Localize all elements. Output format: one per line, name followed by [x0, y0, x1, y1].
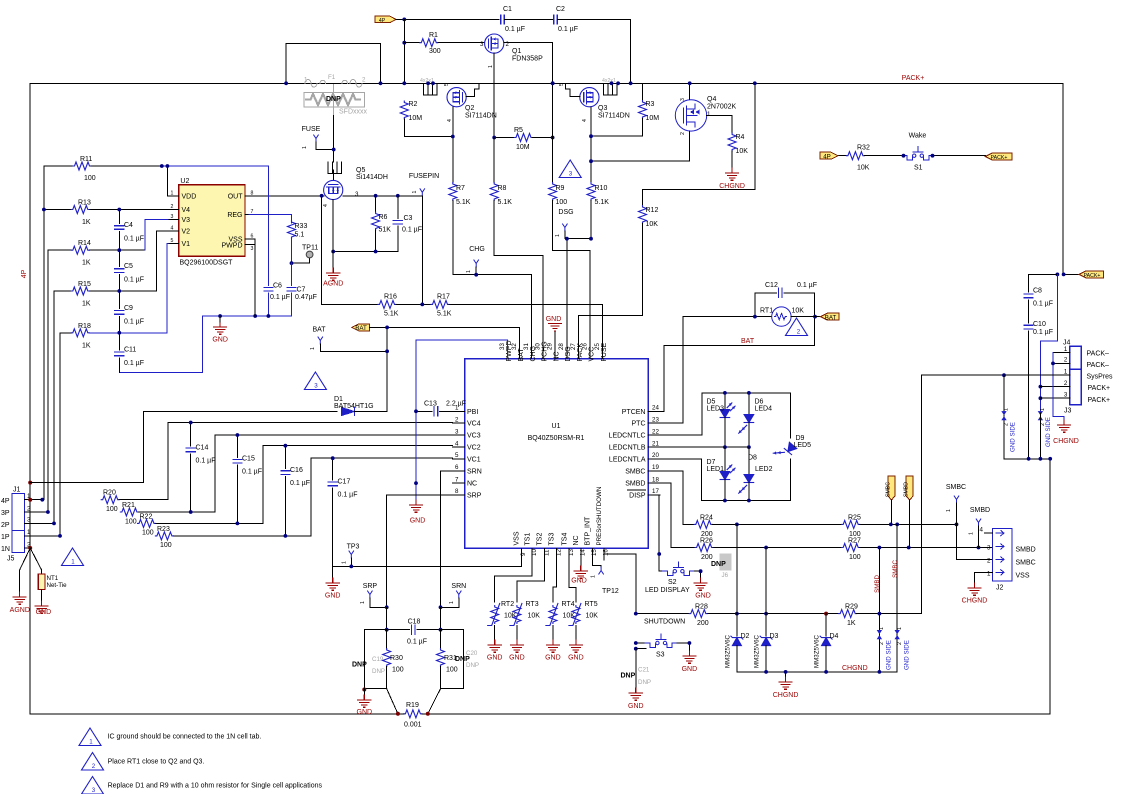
svg-text:1: 1: [707, 111, 711, 118]
note triangle 3 (R9 area): [559, 160, 581, 178]
svg-text:BAT: BAT: [741, 338, 755, 345]
svg-text:DISP: DISP: [629, 493, 646, 500]
resistor R26: [695, 538, 842, 562]
junction at 766.1,547.5: [764, 546, 768, 550]
resistor R4: [728, 133, 748, 168]
node BAT flag: [352, 324, 370, 332]
transistor Q3: [559, 78, 630, 122]
junction at 879.4,671.9: [878, 670, 882, 674]
svg-text:1: 1: [342, 561, 348, 564]
ground GND S3 bottom: [628, 649, 644, 710]
svg-text:DNP: DNP: [638, 679, 651, 686]
svg-text:U1: U1: [552, 423, 561, 430]
svg-text:SI7114DN: SI7114DN: [598, 113, 630, 120]
svg-text:BAT: BAT: [355, 325, 367, 332]
wire zener ground rail: [737, 671, 897, 673]
ground CHGND J2: [962, 572, 993, 604]
LED D7 (LED1): [707, 447, 736, 500]
svg-text:100: 100: [106, 506, 118, 513]
junction at 167.4,166: [166, 164, 170, 168]
svg-text:R18: R18: [78, 323, 91, 330]
ground GND NT1: [35, 601, 51, 616]
svg-text:0.1 µF: 0.1 µF: [1033, 301, 1053, 308]
net-tie NT1: [30, 548, 67, 601]
svg-text:SMBD: SMBD: [874, 574, 881, 592]
svg-text:2: 2: [897, 642, 903, 645]
node PACK+ flag S1: [985, 153, 1012, 161]
svg-text:MM3Z5V6C: MM3Z5V6C: [754, 634, 761, 668]
svg-text:100: 100: [142, 530, 154, 537]
junction at 785.6,671.9: [784, 670, 788, 674]
svg-text:TP11: TP11: [302, 245, 318, 252]
svg-text:LED3: LED3: [707, 406, 725, 413]
switch S1 Wake: [838, 133, 985, 172]
junction at 190.7,422.5: [189, 421, 193, 425]
svg-text:LED2: LED2: [755, 466, 773, 473]
ground GND RT2: [487, 640, 503, 662]
svg-text:R27: R27: [848, 538, 861, 545]
svg-text:1: 1: [1064, 346, 1068, 353]
junction at 190.7,512: [189, 510, 193, 514]
resistor R7: [449, 183, 471, 275]
junction at 591,136.2: [589, 134, 593, 138]
svg-text:DSG: DSG: [558, 209, 573, 216]
svg-text:PACK+: PACK+: [1084, 273, 1101, 279]
ground GND R30: [357, 688, 373, 717]
capacitor C16: [281, 446, 310, 536]
svg-text:NT1: NT1: [47, 575, 59, 582]
svg-text:13: 13: [568, 549, 575, 556]
svg-text:R2: R2: [409, 101, 418, 108]
junction at 416,411.3: [414, 409, 418, 413]
capacitor C11: [115, 347, 144, 373]
svg-text:C4: C4: [124, 222, 133, 229]
svg-text:SysPres: SysPres: [1087, 374, 1114, 381]
wire GND SIDE bottom rail: [1004, 458, 1050, 460]
svg-text:R26: R26: [700, 538, 713, 545]
svg-text:R11: R11: [80, 156, 92, 163]
testpoint TP12: [591, 560, 619, 595]
capacitor C2: [554, 6, 631, 83]
wire LEDCNTLB mid rail: [660, 446, 749, 448]
svg-text:R29: R29: [845, 604, 858, 611]
svg-text:10K: 10K: [646, 221, 659, 228]
wire LEDCNTLA to LED box bottom: [660, 459, 790, 501]
svg-text:FUSEPIN: FUSEPIN: [409, 173, 439, 180]
resistor R22: [138, 446, 263, 537]
svg-text:0.1 µF: 0.1 µF: [124, 236, 144, 243]
svg-text:C18: C18: [408, 619, 421, 626]
capacitor C9: [115, 305, 144, 350]
svg-text:PACK–: PACK–: [1087, 362, 1110, 369]
wire PACK+ to J3 pins: [1040, 274, 1057, 413]
resistor R13: [44, 200, 168, 227]
svg-text:1K: 1K: [82, 260, 91, 267]
svg-text:IC ground should be connected: IC ground should be connected to the 1N …: [108, 734, 262, 741]
resistor R14: [48, 240, 145, 267]
svg-text:2: 2: [27, 505, 31, 512]
junction at 380.5,83.3: [379, 81, 383, 85]
junction at 1040.4,458.8: [1039, 457, 1043, 461]
junction at 724.9,392.9: [723, 391, 727, 395]
svg-text:0.1 µF: 0.1 µF: [290, 480, 310, 487]
transistor Q5: [323, 162, 388, 207]
junction at 440.5,629.7: [439, 628, 443, 632]
wire SMBC(19) to R24: [660, 471, 694, 524]
resistor R24: [694, 514, 841, 538]
junction at 428.1,83.3: [426, 81, 430, 85]
svg-text:SMBD: SMBD: [970, 507, 990, 514]
svg-text:VCC: VCC: [589, 347, 596, 362]
junction at 220.1,316: [218, 314, 222, 318]
wire Q4 gate to R4: [707, 115, 732, 133]
pin FUSE: [302, 126, 334, 150]
capacitor C5: [115, 263, 144, 309]
junction at 386.7,607.3: [385, 605, 389, 609]
LED D6 (LED4): [739, 393, 772, 447]
svg-text:0.1 µF: 0.1 µF: [270, 294, 290, 301]
svg-text:10K: 10K: [736, 148, 749, 155]
svg-text:1: 1: [1064, 369, 1068, 376]
svg-text:7: 7: [455, 476, 459, 483]
svg-text:CHGND: CHGND: [962, 598, 988, 605]
svg-text:GND: GND: [571, 578, 587, 585]
junction at 1057.4,274.4: [1056, 273, 1060, 277]
svg-text:5.1K: 5.1K: [498, 199, 513, 206]
svg-text:S1: S1: [914, 165, 923, 172]
capacitor C3: [393, 196, 422, 252]
junction at 255.2,316: [253, 314, 257, 318]
junction at 1053,363.4: [1051, 362, 1055, 366]
ground GND RT5: [568, 640, 584, 662]
svg-text:R31: R31: [444, 655, 457, 662]
junction at 700.6,571.2: [699, 569, 703, 573]
svg-text:23: 23: [652, 416, 659, 423]
svg-text:SMBC: SMBC: [946, 484, 966, 491]
junction at 291.5,263.1: [290, 261, 294, 265]
svg-text:VC2: VC2: [467, 445, 481, 452]
svg-text:1: 1: [488, 65, 494, 68]
net-tie GND SIDE right: [1038, 408, 1052, 459]
net-tie GND SIDE right: [895, 627, 911, 672]
svg-text:R19: R19: [406, 702, 419, 709]
svg-text:BQ40Z50RSM-R1: BQ40Z50RSM-R1: [528, 435, 585, 442]
wire C8/C10 branch: [1029, 274, 1058, 292]
wire Q2 source column: [452, 107, 454, 183]
svg-text:VC1: VC1: [467, 456, 481, 463]
junction at 890.8,524.4: [889, 523, 893, 527]
junction at 978.5,547.5: [977, 546, 981, 550]
svg-text:J2: J2: [996, 585, 1004, 592]
junction at 1040.4,386.6: [1039, 385, 1043, 389]
junction at 630.6,83.3: [629, 81, 633, 85]
svg-text:10M: 10M: [516, 144, 530, 151]
wire BAT net: [369, 327, 519, 358]
svg-text:LEDCNTLC: LEDCNTLC: [609, 433, 646, 440]
svg-text:R28: R28: [695, 604, 708, 611]
junction at 416,483.1: [414, 481, 418, 485]
svg-text:TP12: TP12: [602, 588, 619, 595]
junction at 591,238.7: [589, 237, 593, 241]
junction at 1028.6,458.8: [1027, 457, 1031, 461]
junction at 591,161.2: [589, 159, 593, 163]
ground GND C13: [410, 500, 426, 525]
wire ladder left bus columns: [44, 166, 60, 536]
resistor R2: [400, 101, 453, 137]
wire Q1 drain to rail: [504, 43, 553, 84]
junction (red) at 30.2,482.6: [28, 481, 32, 485]
junction at 932.5,155.7: [931, 154, 935, 158]
svg-text:1K: 1K: [847, 620, 856, 627]
svg-text:3: 3: [171, 214, 174, 220]
svg-text:4: 4: [455, 440, 459, 447]
svg-text:1P: 1P: [1, 534, 10, 541]
svg-text:4: 4: [447, 119, 453, 122]
svg-text:R22: R22: [140, 513, 153, 520]
wire Q3 source column: [590, 107, 592, 183]
wire CHG row to U1 pin31: [453, 275, 532, 359]
junction at 42.3,499.7: [40, 498, 44, 502]
svg-text:SMBC: SMBC: [892, 559, 899, 577]
svg-text:BAT: BAT: [518, 348, 525, 362]
svg-text:0.1 µF: 0.1 µF: [124, 319, 144, 326]
svg-text:DSG: DSG: [565, 346, 572, 361]
svg-text:14: 14: [580, 549, 587, 556]
ground GND TP3: [325, 566, 341, 599]
svg-text:1: 1: [555, 234, 561, 237]
junction at 748.9,500.5: [747, 499, 751, 503]
svg-text:6: 6: [455, 464, 459, 471]
zener D3 MM3Z5V6C: [754, 614, 779, 672]
transistor Q2: [420, 78, 497, 122]
node PACK+ flag right: [1064, 271, 1104, 279]
junction at 566.9,238.7: [565, 237, 569, 241]
connector J5: [1, 529, 60, 562]
wire PTC net to RT1 left: [660, 317, 772, 424]
svg-text:Q2: Q2: [465, 105, 474, 112]
capacitor C1: [501, 6, 554, 33]
svg-text:BAT: BAT: [825, 314, 837, 321]
svg-text:V4: V4: [182, 207, 191, 214]
svg-text:V3: V3: [182, 217, 191, 224]
wire rowA to D2 column: [736, 524, 738, 613]
svg-text:C20: C20: [466, 650, 478, 657]
svg-text:J3: J3: [1064, 408, 1072, 415]
svg-text:4P: 4P: [21, 269, 28, 278]
svg-text:2: 2: [362, 77, 366, 84]
connector J3: [1040, 369, 1113, 415]
svg-text:J1: J1: [13, 487, 21, 494]
svg-text:PWPD: PWPD: [222, 242, 243, 249]
svg-text:R8: R8: [498, 185, 507, 192]
svg-text:C12: C12: [765, 282, 778, 289]
svg-text:3: 3: [92, 787, 96, 794]
svg-text:C11: C11: [124, 347, 136, 354]
svg-text:GND: GND: [36, 609, 52, 616]
svg-text:RT2: RT2: [501, 601, 514, 608]
svg-text:R13: R13: [78, 200, 91, 207]
junction at 397.8,195.8: [396, 194, 400, 198]
resistor R25: [842, 514, 957, 538]
junction at 903.5,155.7: [902, 154, 906, 158]
resistor R30: [383, 630, 404, 689]
svg-text:R24: R24: [700, 514, 713, 521]
junction (red) at 30.2,499.7: [28, 498, 32, 502]
junction at 332.7,458.2: [331, 456, 335, 460]
svg-text:100: 100: [84, 175, 96, 182]
wire rowB to D3 column: [765, 548, 767, 614]
svg-text:R12: R12: [646, 207, 659, 214]
DNP grey box J6: [711, 554, 731, 579]
net-tie GND SIDE left: [877, 614, 893, 672]
junction at 433,83.3: [431, 81, 435, 85]
resistor R12: [579, 83, 755, 358]
junction at 689.4,643: [688, 641, 692, 645]
junction at 386.7,629.7: [385, 628, 389, 632]
svg-text:PACK+: PACK+: [902, 75, 925, 82]
wire Q4 drain to rail: [689, 83, 691, 99]
svg-text:1K: 1K: [82, 301, 91, 308]
svg-text:4P: 4P: [823, 153, 831, 160]
svg-text:20: 20: [652, 452, 659, 459]
svg-text:GND SIDE: GND SIDE: [903, 640, 910, 670]
junction at 119.3,332.8: [117, 331, 121, 335]
svg-text:11: 11: [543, 549, 550, 556]
svg-text:GND: GND: [545, 655, 561, 662]
svg-text:10K: 10K: [528, 613, 541, 620]
junction at 748.9,447.1: [747, 445, 751, 449]
wire LED box right edge / D9 branch: [790, 393, 792, 501]
capacitor C10: [1024, 321, 1053, 459]
wire U2 ground rail: [119, 316, 291, 373]
wire SMBD red vertical: [878, 548, 880, 614]
resistor R27: [842, 538, 993, 562]
junction (red) at 397.9,713.8: [396, 712, 400, 716]
svg-text:2P: 2P: [1, 522, 10, 529]
svg-text:OUT: OUT: [228, 193, 244, 200]
junction at 689.7,83.3: [688, 81, 692, 85]
wire PTCEN net to RT1: [660, 317, 814, 412]
svg-text:SRP: SRP: [467, 493, 482, 500]
capacitor C14: [186, 423, 215, 513]
transistor Q4: [675, 96, 736, 135]
wire PACK+ top rail: [30, 83, 1063, 274]
svg-text:300: 300: [429, 48, 441, 55]
junction at 404.3,42.7: [402, 41, 406, 45]
capacitor C19 DNP loop: [352, 630, 387, 689]
resistor R29: [839, 604, 922, 627]
ground GND U2: [212, 316, 228, 344]
ground GND pin29: [546, 316, 562, 359]
junction at 736.9,524.4: [735, 523, 739, 527]
junction at 956.5,524.4: [955, 523, 959, 527]
svg-text:C6: C6: [273, 283, 282, 290]
svg-text:GND SIDE: GND SIDE: [1045, 417, 1052, 447]
svg-text:17: 17: [652, 488, 659, 495]
net-tie GND SIDE left: [1001, 375, 1016, 459]
junction at 748.9,392.9: [747, 391, 751, 395]
junction at 333.7,149.5: [332, 148, 336, 152]
svg-text:C14: C14: [196, 445, 209, 452]
capacitor C17: [328, 458, 357, 566]
svg-text:Net-Tie: Net-Tie: [47, 582, 68, 589]
IC U1 BQ40Z50RSM-R1: [453, 341, 661, 561]
svg-text:Place RT1 close to Q2 and Q3.: Place RT1 close to Q2 and Q3.: [108, 759, 205, 766]
junction (red) at 826.1,613.6: [824, 612, 828, 616]
svg-text:1: 1: [71, 559, 75, 566]
ground AGND: [323, 200, 343, 288]
wire V2 riser: [157, 231, 168, 291]
junction at 440.5,607.3: [439, 605, 443, 609]
resistor R31: [437, 630, 458, 689]
svg-text:PRESorSHUTDOWN: PRESorSHUTDOWN: [596, 487, 603, 546]
note triangle 3 (D1 area): [304, 372, 326, 390]
svg-text:D8: D8: [748, 455, 757, 462]
svg-text:DNP: DNP: [711, 561, 726, 568]
svg-text:CHG: CHG: [530, 346, 537, 362]
pin BAT: [310, 327, 387, 352]
junction at 879.4,613.6: [878, 612, 882, 616]
wire VC4 row: [168, 422, 453, 424]
junction at 552.6,137.5: [551, 136, 555, 140]
junction at 285.4,445.7: [284, 444, 288, 448]
svg-text:REG: REG: [227, 212, 242, 219]
svg-text:PTCEN: PTCEN: [622, 409, 646, 416]
wire R6/C3 bottom to AGND: [333, 251, 398, 253]
LED D5 (LED3): [707, 393, 736, 447]
note triangle 1 bottom: [79, 728, 101, 746]
svg-text:SMBC: SMBC: [1016, 560, 1036, 567]
junction at 826.1,671.9: [824, 670, 828, 674]
svg-text:GND SIDE: GND SIDE: [886, 640, 893, 670]
svg-text:C15: C15: [242, 456, 255, 463]
thermistor RT2: [488, 601, 517, 640]
svg-text:0.47µF: 0.47µF: [295, 294, 317, 301]
capacitor C18: [387, 607, 441, 645]
svg-text:NC: NC: [467, 481, 477, 488]
svg-text:LED DISPLAY: LED DISPLAY: [645, 587, 690, 594]
svg-text:10K: 10K: [792, 308, 805, 315]
svg-text:C17: C17: [338, 479, 351, 486]
note triangle 2 bottom: [82, 753, 104, 771]
svg-text:Q5: Q5: [356, 167, 365, 174]
svg-text:RT1: RT1: [760, 308, 773, 315]
svg-text:C16: C16: [290, 467, 303, 474]
svg-text:1K: 1K: [82, 342, 91, 349]
pin SMBD right: [969, 507, 991, 548]
junction at 268.4,316: [267, 314, 271, 318]
svg-text:4P: 4P: [1, 498, 10, 505]
svg-text:TS2: TS2: [537, 533, 544, 546]
svg-text:C2: C2: [556, 6, 565, 13]
junction at 766.1,671.9: [764, 670, 768, 674]
ground GND S3 right: [682, 651, 698, 673]
svg-text:9: 9: [520, 552, 527, 556]
svg-text:Q3: Q3: [598, 105, 607, 112]
svg-text:3: 3: [680, 98, 686, 101]
resistor R8: [490, 138, 543, 359]
svg-text:5.1K: 5.1K: [595, 199, 610, 206]
svg-text:0.1 µF: 0.1 µF: [196, 458, 216, 465]
svg-text:R6: R6: [379, 214, 388, 221]
svg-text:BQ296100DSGT: BQ296100DSGT: [180, 260, 234, 267]
svg-text:R14: R14: [78, 240, 91, 247]
svg-text:2: 2: [1064, 380, 1068, 387]
svg-text:PACK: PACK: [577, 343, 584, 362]
wire TS1 to RT2: [495, 560, 533, 602]
capacitor C6: [264, 283, 290, 317]
junction at 611.5,83.3: [610, 81, 614, 85]
